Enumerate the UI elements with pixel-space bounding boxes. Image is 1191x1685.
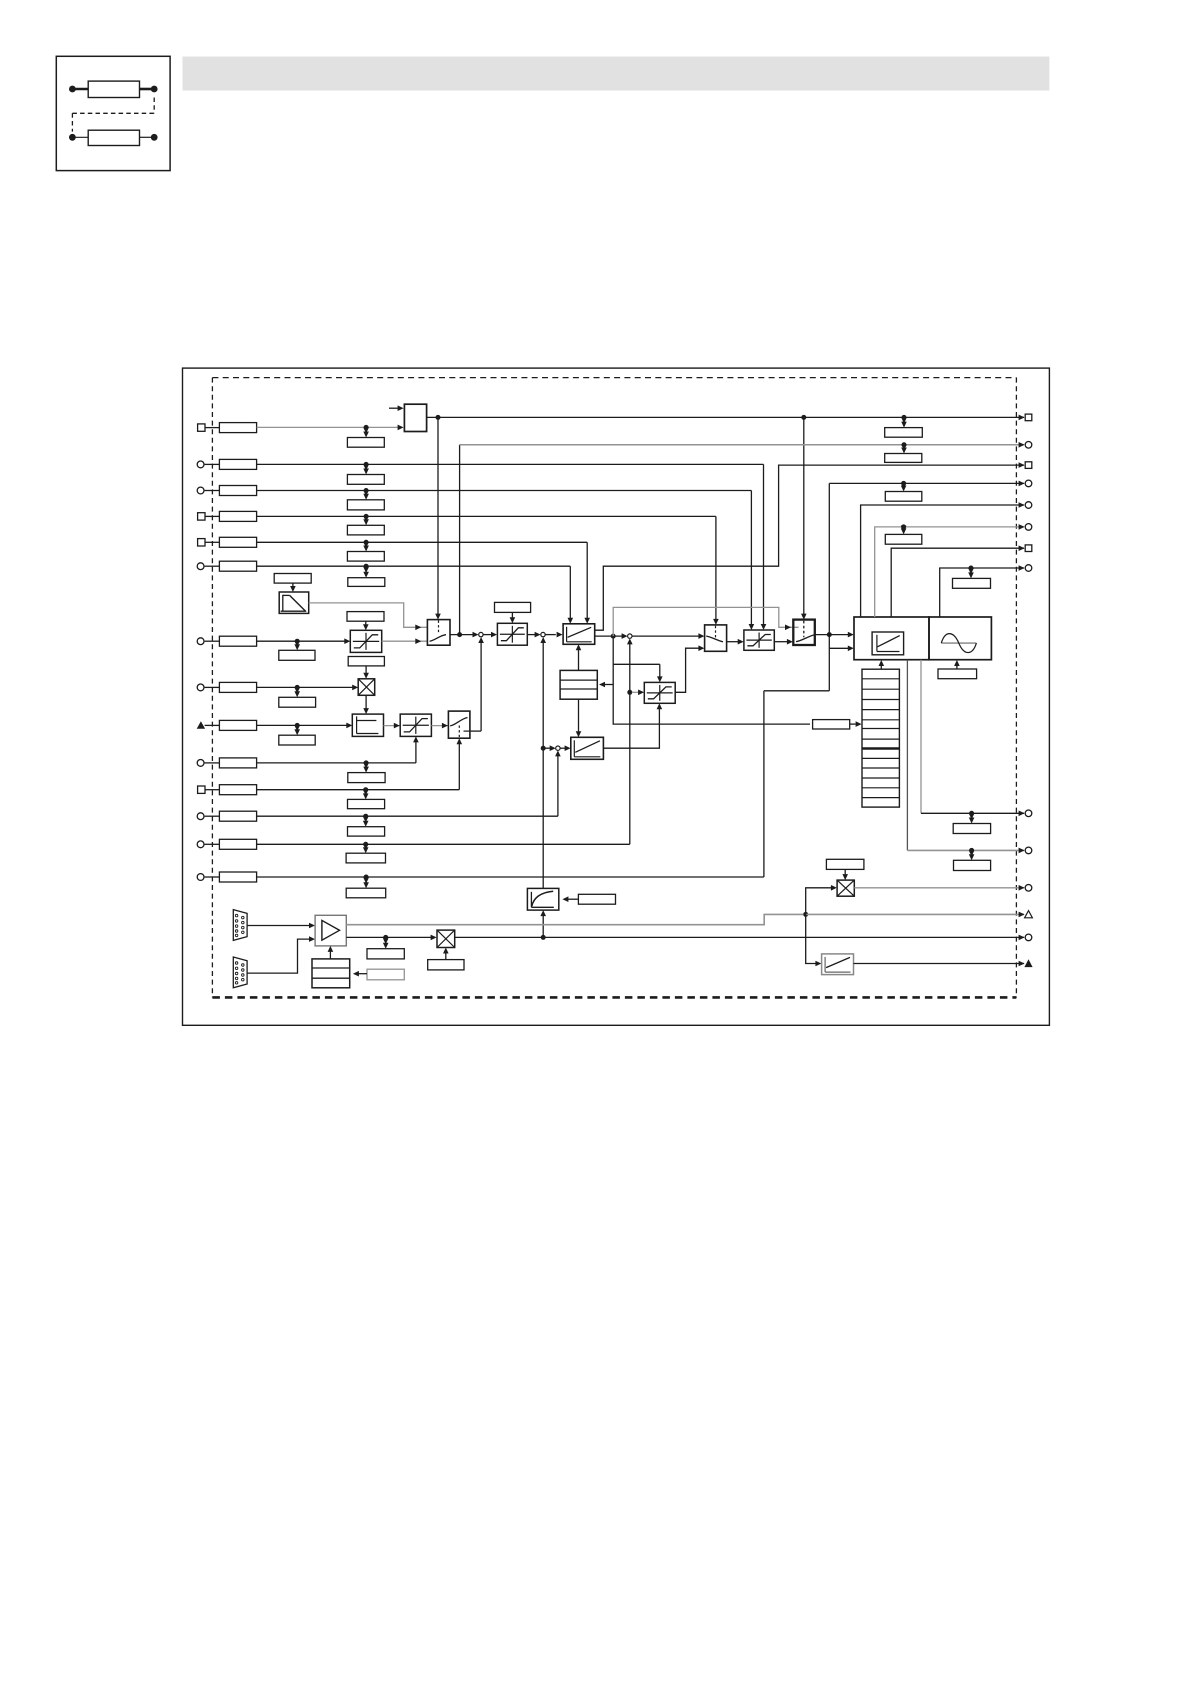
wire row6 bbox=[257, 566, 573, 624]
parameter box PM2 below M2 bbox=[938, 669, 977, 679]
output ramp block S5 bbox=[822, 954, 854, 975]
output terminal Y3 (square) bbox=[1019, 462, 1032, 469]
wire row4 bbox=[257, 516, 719, 625]
parameter box PO2 bbox=[954, 848, 991, 871]
logo dashed link wire bbox=[72, 98, 154, 132]
wire output row4 bbox=[829, 482, 1024, 484]
connector X16 (D-sub) bbox=[233, 957, 247, 988]
switch block S1 bbox=[427, 620, 450, 646]
parameter box PL7 above limiter B2 bbox=[347, 612, 384, 622]
wire row7 bbox=[257, 638, 351, 644]
display box D1 on wire bbox=[813, 720, 850, 729]
output terminal Y6 (circle) bbox=[1019, 524, 1032, 531]
wire M1 riser to output row6 (gray) bbox=[875, 527, 1024, 617]
wire ramp main output bbox=[595, 633, 628, 639]
wire encoder frequency up to scaling block bbox=[540, 910, 546, 940]
summing node N4 bbox=[556, 746, 560, 750]
parameter box PB1 bbox=[495, 602, 531, 612]
wire M1 down to output row 813 (gray riser) bbox=[921, 660, 1024, 814]
parameter box P3 bbox=[347, 488, 384, 510]
block U1 setpoint selector bbox=[404, 404, 426, 431]
direction switch S2 bbox=[705, 625, 727, 651]
output terminal Y5 (circle) bbox=[1019, 502, 1032, 509]
wire output row2 (gray) bbox=[460, 444, 1024, 446]
block M1 motor control bbox=[854, 617, 929, 660]
wire monitor node down to ramp block S5 bbox=[806, 914, 822, 966]
input terminal X2 (circle) bbox=[197, 459, 256, 469]
parameter box PX1 bbox=[348, 657, 384, 666]
switch block S3 bbox=[793, 620, 815, 645]
wire PX1 to multiplier X1 bbox=[363, 666, 369, 679]
wire speed setpoint into N4 bbox=[545, 745, 555, 751]
wire L1 to block M1 bbox=[879, 660, 885, 669]
wire N2 feedback riser bbox=[540, 637, 546, 888]
output terminal Y13 (circle) bbox=[1019, 934, 1032, 941]
connector X15 (D-sub encoder) bbox=[233, 910, 247, 941]
block M1 V/f characteristic symbol bbox=[872, 632, 904, 655]
parameter box P14 bbox=[346, 875, 386, 898]
parameter box PE bbox=[953, 566, 991, 589]
output terminal Y7 (square) bbox=[1019, 545, 1032, 552]
wire N3 to direction switch S2 bbox=[632, 633, 705, 639]
wire PL3 to L3 bbox=[353, 971, 367, 977]
wire PI to switch S4 (gray) bbox=[431, 723, 448, 729]
block M2 sine symbol bbox=[941, 634, 976, 653]
parameter box PB bbox=[885, 442, 922, 462]
wire row9 bbox=[257, 723, 353, 729]
inverter dashed boundary bbox=[212, 378, 1016, 998]
parameter box P9 bbox=[279, 723, 315, 745]
input terminal X11 (square) bbox=[198, 785, 257, 795]
wire L2 up to ramp generator bbox=[576, 644, 582, 670]
parameter box P8 bbox=[279, 685, 316, 707]
logo resistor R1 (braking resistor, active) bbox=[69, 81, 158, 97]
wire X2 to output row circle bbox=[455, 936, 1024, 938]
limiter block B3 bbox=[644, 682, 675, 703]
wire M1 riser to output row5 bbox=[861, 505, 1024, 617]
wire PL7 to limiter B2 bbox=[363, 621, 369, 630]
wire row8 bbox=[257, 685, 359, 691]
input terminal X1 (square) bbox=[198, 423, 257, 433]
switch block S4 bbox=[448, 711, 470, 738]
parameter box PX2 bbox=[428, 960, 464, 970]
input terminal X14 (circle) bbox=[197, 872, 256, 882]
output terminal Y12 (open triangle) bbox=[1019, 911, 1033, 918]
parameter box PL3 (gray) bbox=[367, 969, 404, 980]
wire filter output to switch S1 input a (gray) bbox=[309, 603, 427, 630]
wire X1 down to track block bbox=[363, 695, 369, 714]
ramp generator block HLG bbox=[563, 624, 595, 645]
summing node N1 bbox=[479, 632, 483, 636]
input terminal X9 (triangle) bbox=[197, 720, 257, 730]
input terminal X6 (circle) bbox=[197, 561, 256, 571]
block M2 output stage bbox=[929, 617, 991, 660]
wire S3 junction up to output row4 bbox=[828, 483, 830, 634]
wire B4 to switch S3 bbox=[774, 639, 793, 645]
wire speed controller output riser bbox=[603, 703, 662, 748]
encoder option list L3 bbox=[312, 959, 350, 988]
wire row13 bbox=[257, 843, 630, 845]
parameter box P2 bbox=[347, 462, 384, 484]
input terminal X8 (circle) bbox=[197, 682, 256, 692]
wire S5 to output row triangle bbox=[854, 963, 1025, 965]
wire B1 to summing node N2 bbox=[527, 632, 540, 638]
wire PM2 to block M2 bbox=[954, 660, 960, 669]
parameter box P5 bbox=[347, 540, 384, 561]
wire PX3 to multiplier X3 bbox=[842, 869, 848, 880]
PI limiter block B5 bbox=[400, 714, 431, 736]
speed controller block N bbox=[571, 737, 604, 759]
input terminal X13 (circle) bbox=[197, 839, 256, 849]
wire N3 feedback from row13 bbox=[627, 638, 633, 844]
parameter box PF above filter bbox=[274, 574, 311, 584]
parameter box P10 bbox=[348, 760, 385, 782]
wire limiter B3 output riser to S2 bbox=[675, 645, 704, 692]
input terminal X10 (circle) bbox=[197, 758, 256, 768]
figure frame bbox=[183, 368, 1050, 1025]
wire amplifier encoder frequency output bbox=[346, 935, 436, 941]
output terminal Y4 (circle) bbox=[1019, 480, 1032, 487]
wire L2 down to speed controller bbox=[576, 699, 582, 737]
wire connector X16 to amplifier bbox=[247, 936, 315, 973]
wire X3 to output row circle (gray) bbox=[854, 887, 1024, 889]
input terminal X7 (circle) bbox=[197, 636, 256, 646]
multiplier X2 bbox=[437, 930, 455, 947]
wire S4 output up to node N1 bbox=[470, 730, 481, 732]
input terminal X12 (circle) bbox=[197, 811, 256, 821]
output terminal Y2 (circle) bbox=[1019, 442, 1032, 449]
wire row10 bbox=[257, 736, 419, 763]
multiplier X1 bbox=[358, 679, 375, 696]
wire M1 down to output row 850 bbox=[907, 660, 1024, 851]
output terminal Y1 (square) bbox=[1019, 414, 1032, 421]
wire M2 riser to output row8 bbox=[940, 568, 1024, 617]
wire tap to limiter B3 input (gray) bbox=[632, 690, 644, 696]
parameter box PO1 bbox=[953, 811, 990, 834]
logo frame bbox=[56, 56, 170, 170]
wire S2 to limiter B4 bbox=[727, 639, 744, 645]
filter block F1 (low pass) bbox=[279, 592, 309, 613]
summing node N2 bbox=[541, 632, 545, 636]
parameter box P1 bbox=[347, 425, 384, 447]
wire N1 feedback riser bbox=[478, 637, 484, 731]
wire N4 to speed controller bbox=[560, 745, 571, 751]
parameter box P6 bbox=[348, 564, 385, 587]
parameter box PC bbox=[885, 481, 922, 501]
limiter block B4 bbox=[744, 630, 774, 650]
wire S1 junction up to output row2 bbox=[459, 445, 461, 635]
parameter box PX3 bbox=[826, 859, 864, 869]
wire stub into U1 bbox=[389, 405, 404, 411]
wire S3 output to block M1 bbox=[815, 632, 854, 638]
wire row5 bbox=[257, 542, 590, 624]
wire track to PI (gray) bbox=[384, 723, 400, 729]
logo resistor R2 (optional) bbox=[69, 130, 158, 145]
output terminal Y14 (filled triangle) bbox=[1019, 959, 1033, 967]
parameter box P13 bbox=[346, 842, 385, 863]
amplifier block A1 bbox=[315, 915, 346, 946]
wire row14 bbox=[257, 691, 830, 877]
wire S1 output rail bbox=[450, 632, 479, 638]
title bar bbox=[183, 57, 1050, 91]
wire row1 to block U1 (gray) bbox=[257, 425, 404, 431]
wire M1 riser to output row7 bbox=[891, 548, 1024, 617]
parameter box P12 bbox=[348, 814, 385, 836]
wire PF2 to scaling block bbox=[562, 896, 578, 902]
wire ramp junction distribution bbox=[599, 636, 810, 724]
input terminal X5 (square) bbox=[198, 537, 257, 547]
wire monitor to output row triangle (gray) bbox=[806, 913, 1024, 915]
wire row3 bbox=[257, 491, 755, 631]
wire display to parameter list bbox=[850, 721, 862, 727]
summing node N3 bbox=[628, 634, 632, 638]
wire ramp upper output to output row3 bbox=[595, 465, 1024, 630]
wire N2 to ramp generator bbox=[545, 632, 562, 638]
wire L3 up to amplifier bbox=[328, 946, 334, 959]
track block T1 bbox=[352, 714, 383, 736]
wire limiter B2 to switch S1 input b (gray) bbox=[382, 638, 427, 644]
node frequency monitor bbox=[803, 912, 808, 917]
parameter box PF2 bbox=[578, 894, 615, 904]
limiter block B2 bbox=[350, 630, 381, 652]
parameter box P4 bbox=[347, 514, 384, 535]
wire U1 junction down to switch S1 bbox=[435, 417, 441, 619]
wire amplifier monitor output (gray) bbox=[346, 914, 803, 924]
wire ramp junction riser to switch S3 (gray) bbox=[613, 607, 798, 636]
wire row12 bbox=[257, 750, 561, 816]
wire junction down to switch S3 bbox=[801, 417, 807, 619]
wire PB1 to limiter B1 bbox=[510, 612, 516, 623]
wire monitor node up to multiplier X3 bbox=[806, 885, 837, 914]
status list L2 bbox=[560, 670, 597, 699]
wire row2 bbox=[257, 464, 767, 630]
parameter list L1 bbox=[862, 669, 899, 807]
wire row11 bbox=[257, 738, 463, 790]
output terminal Y10 (circle) bbox=[1019, 847, 1032, 854]
wire connector X15 to amplifier bbox=[247, 923, 315, 929]
wire PX2 to multiplier X2 bbox=[443, 948, 449, 960]
output terminal Y11 (circle) bbox=[1019, 885, 1032, 892]
parameter box PA bbox=[885, 415, 923, 437]
parameter box P11 bbox=[348, 787, 385, 809]
encoder scaling block F2 bbox=[527, 888, 558, 910]
input terminal X4 (square) bbox=[198, 511, 257, 521]
wire N1 to limiter B1 bbox=[483, 632, 497, 638]
limiter block B1 bbox=[497, 623, 527, 645]
output terminal Y9 (circle) bbox=[1019, 810, 1032, 817]
parameter box PA1 bbox=[367, 937, 404, 959]
wire U1 output to binary output row1 bbox=[427, 415, 1024, 420]
multiplier X3 bbox=[837, 880, 854, 896]
wire PF to filter bbox=[290, 583, 296, 592]
parameter box P7 bbox=[279, 639, 315, 661]
input terminal X3 (circle) bbox=[197, 486, 256, 496]
parameter box PD bbox=[885, 524, 922, 544]
output terminal Y8 (circle) bbox=[1019, 565, 1032, 572]
wire S3 junction down branch bbox=[829, 635, 854, 691]
